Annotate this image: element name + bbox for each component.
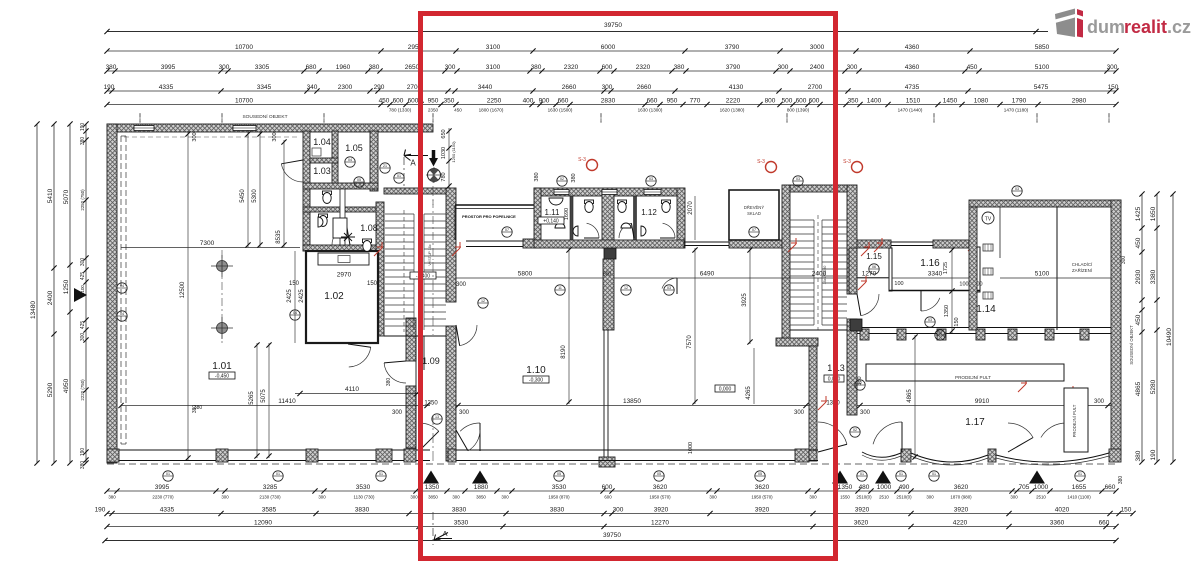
svg-text:0,000: 0,000 [719,387,732,393]
svg-text:3850: 3850 [476,495,486,500]
left black triangle marker [74,288,87,302]
svg-text:480: 480 [859,484,870,491]
svg-text:3830: 3830 [355,506,370,513]
svg-text:12: 12 [624,286,628,290]
svg-text:2400: 2400 [47,290,54,305]
urinal 1.11 [549,198,563,205]
svg-text:2425: 2425 [287,289,293,303]
right outer wall [1111,200,1121,455]
svg-text:150: 150 [1121,506,1132,513]
svg-text:1350: 1350 [425,484,440,491]
wall jog between stairwell and 1.13 [776,338,818,346]
svg-text:770: 770 [690,97,701,104]
svg-text:190: 190 [104,84,115,91]
svg-text:300: 300 [219,64,230,71]
shelf in 1.04 [312,148,321,156]
top wall left section [107,124,433,132]
bath fixtures left block [323,191,332,195]
svg-text:12090: 12090 [254,519,272,526]
svg-text:1725: 1725 [943,262,949,274]
open edge lines 1.09 [415,336,417,450]
svg-text:03: 03 [649,177,653,181]
svg-text:1030: 1030 [441,147,447,159]
door arc left block 1 [281,164,303,182]
svg-text:1510: 1510 [906,97,921,104]
svg-text:1000: 1000 [877,484,892,491]
svg-text:1.14: 1.14 [976,304,996,315]
svg-text:300: 300 [613,506,624,513]
svg-text:1620 (1380): 1620 (1380) [720,108,745,113]
svg-text:4020: 4020 [1055,506,1070,513]
svg-text:1400: 1400 [867,97,882,104]
right block top wall [969,200,1121,207]
tv circle [982,212,994,224]
svg-text:1350: 1350 [838,484,853,491]
svg-text:6000: 6000 [601,44,616,51]
svg-text:300: 300 [926,495,934,500]
svg-text:03: 03 [796,177,800,181]
wall band x849 between 1.13 and 1.15 [849,248,857,294]
svg-text:3340: 3340 [928,271,943,278]
svg-text:-0,300: -0,300 [529,378,543,384]
window lines corridor band [891,241,933,243]
door entrance 1.13 [818,422,847,444]
svg-text:3995: 3995 [155,484,170,491]
bottom band hatched pillars [107,449,119,462]
svg-text:300: 300 [794,410,805,416]
dimension row 3 top [107,90,1116,92]
svg-text:660: 660 [647,97,658,104]
svg-text:380: 380 [386,378,392,387]
inner face dashed line below top wall [124,136,298,138]
svg-text:.cz: .cz [1167,17,1191,37]
level boxed labels [209,372,235,379]
dimension row 1 top [107,50,1116,52]
svg-text:450: 450 [379,97,390,104]
svg-text:2650: 2650 [405,64,420,71]
svg-text:4110: 4110 [345,386,359,393]
svg-text:300: 300 [452,495,460,500]
popelnice shelf [466,240,524,242]
svg-text:5850: 5850 [1035,44,1050,51]
svg-text:01: 01 [166,472,170,476]
svg-text:1.15: 1.15 [866,252,882,261]
svg-text:1.12: 1.12 [641,208,657,217]
wall x446 lower segment [446,326,456,461]
svg-text:1950 (570): 1950 (570) [649,495,671,500]
washbasin 1.12 [621,223,631,228]
vertical line 1.09 corridor dashdot [432,200,434,260]
svg-text:190: 190 [80,448,86,457]
vertical dim line x449 top [448,128,450,188]
svg-text:04: 04 [348,158,352,162]
svg-text:3830: 3830 [550,506,565,513]
svg-text:1655: 1655 [1072,484,1087,491]
svg-text:660: 660 [1105,484,1116,491]
svg-text:2400: 2400 [810,64,825,71]
svg-text:realit: realit [1124,17,1167,37]
svg-text:3790: 3790 [726,64,741,71]
svg-text:+0,140: +0,140 [543,219,559,225]
svg-text:12270: 12270 [651,519,669,526]
svg-text:300: 300 [809,495,817,500]
svg-text:3620: 3620 [954,484,969,491]
svg-text:5300: 5300 [252,189,258,203]
svg-text:490: 490 [899,484,910,491]
svg-text:2220 (750): 2220 (750) [80,379,85,401]
toilet stall 2 [618,200,627,204]
svg-text:2070: 2070 [688,201,694,215]
svg-text:380: 380 [857,376,863,385]
vertical dim chain 4865 [914,335,916,459]
shed tag circle [749,227,759,237]
svg-text:3850: 3850 [428,495,438,500]
svg-text:1.17: 1.17 [965,417,985,428]
svg-text:1250: 1250 [63,279,70,294]
svg-text:2510: 2510 [879,495,889,500]
window lines corridor band sklad [684,241,729,243]
door arc near 1.12 right [662,278,677,289]
svg-text:600: 600 [796,97,807,104]
svg-text:3285: 3285 [263,484,278,491]
svg-text:300: 300 [1107,64,1118,71]
svg-text:300: 300 [80,333,86,342]
svg-text:2830: 2830 [601,97,616,104]
shopfront curved glazing [862,452,1109,462]
svg-text:3530: 3530 [552,484,567,491]
svg-text:450: 450 [454,108,462,113]
stair1 bottom landing line [384,335,446,337]
svg-text:1350: 1350 [944,305,950,317]
svg-text:380: 380 [80,461,86,470]
interior wall x370 right of 1.05 [370,131,378,191]
svg-text:3790: 3790 [725,44,740,51]
svg-text:05: 05 [758,472,762,476]
svg-text:SKLAD: SKLAD [747,211,761,216]
svg-text:4335: 4335 [160,506,175,513]
left wall inner dashed lines [120,136,122,444]
svg-text:CHLADÍCÍ: CHLADÍCÍ [1072,262,1093,267]
svg-text:DŘEVĚNÝ: DŘEVĚNÝ [744,205,764,210]
svg-text:3100: 3100 [486,64,501,71]
svg-text:A: A [410,159,416,168]
dimension row overall 39750 top [107,31,1048,33]
svg-text:600: 600 [602,484,613,491]
stair2 left wall [782,185,790,346]
svg-text:03: 03 [1015,187,1019,191]
svg-text:1880: 1880 [474,484,489,491]
svg-text:1630 (1500): 1630 (1500) [548,108,573,113]
svg-text:5450: 5450 [240,189,246,203]
svg-text:5100: 5100 [1035,64,1050,71]
svg-text:2510(0): 2510(0) [896,495,912,500]
svg-text:380: 380 [192,405,198,414]
svg-text:S-3: S-3 [843,159,851,165]
dim 5800-series line labels in 1.15 zone [857,277,889,279]
tv room left wall [969,207,977,330]
left vertical dimension lines [36,124,38,463]
svg-text:01: 01 [1078,472,1082,476]
svg-text:5075: 5075 [261,389,267,403]
svg-text:190: 190 [80,123,86,132]
svg-text:PRODEJNÍ PULT: PRODEJNÍ PULT [1072,404,1077,437]
stair flight 1 treads [385,213,414,215]
toilet 1.12 [662,200,671,204]
svg-text:ZAŘÍZENÍ: ZAŘÍZENÍ [1072,268,1093,273]
svg-text:1425: 1425 [1135,206,1142,221]
svg-text:2660: 2660 [562,84,577,91]
svg-text:1470 (1180): 1470 (1180) [1004,108,1029,113]
red slashes at stairs [374,242,383,256]
popelnice enclosure top wall [455,204,535,206]
svg-text:600: 600 [408,97,419,104]
wooden shed room [729,190,779,240]
svg-text:1470 (1440): 1470 (1440) [898,108,923,113]
svg-text:1950 (870): 1950 (870) [548,495,570,500]
svg-text:950: 950 [428,97,439,104]
toilet block outer walls [534,188,684,196]
svg-text:2250 (750): 2250 (750) [80,189,85,211]
interior dim 13850 [456,405,809,407]
svg-text:1.11: 1.11 [545,208,561,217]
svg-text:3585: 3585 [262,506,277,513]
svg-text:2970: 2970 [337,272,352,279]
kitchen counter in 1.02 [318,253,369,265]
svg-text:650: 650 [441,129,447,138]
svg-text:3100: 3100 [486,44,501,51]
vertical dim chain 12500 room 1.01 [187,131,189,460]
svg-text:4950: 4950 [63,378,70,393]
svg-text:4865: 4865 [907,389,913,403]
dimension row 2 top [107,70,1116,72]
top wall window insets left section [134,126,154,131]
interior wall x332 [332,131,338,188]
svg-text:3925: 3925 [742,293,748,307]
dashed line bottom of plan [107,463,1116,465]
door arc 1.16 down [921,298,940,311]
right vertical dimension lines [1141,194,1143,462]
svg-text:1960: 1960 [336,64,351,71]
svg-text:705: 705 [1019,484,1030,491]
svg-text:3920: 3920 [654,506,669,513]
svg-text:300: 300 [272,132,278,141]
svg-text:10700: 10700 [235,97,253,104]
vertical dim chains 5265 5075 lower [256,343,258,458]
svg-text:660: 660 [1099,519,1110,526]
svg-text:900: 900 [539,97,550,104]
svg-text:13850: 13850 [623,398,641,405]
interior dim 7300 [121,247,300,249]
svg-text:5265: 5265 [249,391,255,405]
svg-text:11410: 11410 [278,398,296,405]
red slashes near 1.15 [861,242,870,256]
svg-text:02: 02 [853,428,857,432]
svg-text:300: 300 [501,495,509,500]
svg-text:3920: 3920 [855,506,870,513]
svg-text:3440: 3440 [478,84,493,91]
svg-text:380: 380 [674,64,685,71]
svg-text:8535: 8535 [276,230,282,244]
dimension row 3 bottom [107,526,1116,528]
svg-text:4735: 4735 [905,84,920,91]
red arrows in 1.17 [818,396,827,410]
svg-text:2510: 2510 [1036,495,1046,500]
svg-text:380: 380 [1118,476,1124,485]
svg-text:1130 (730): 1130 (730) [354,495,375,500]
svg-text:1.16: 1.16 [920,258,940,269]
svg-text:425: 425 [80,272,86,281]
door entrance 1.17 west [873,422,902,444]
svg-text:S-3: S-3 [578,157,586,163]
svg-text:1450: 1450 [943,97,958,104]
svg-text:10490: 10490 [1166,328,1173,346]
svg-text:100: 100 [894,281,903,287]
svg-text:5290: 5290 [47,382,54,397]
grid dashdot through crosses room 1.01 [221,250,223,345]
red section circles S-3 [587,160,598,171]
svg-text:2425: 2425 [299,289,305,303]
svg-text:350: 350 [444,97,455,104]
svg-text:2300: 2300 [338,84,353,91]
interior wall x303 [303,131,310,251]
svg-text:04: 04 [120,284,124,288]
svg-text:300: 300 [80,258,86,267]
svg-text:3530: 3530 [454,519,469,526]
svg-text:3620: 3620 [755,484,770,491]
svg-text:3920: 3920 [954,506,969,513]
svg-text:10700: 10700 [235,44,253,51]
svg-text:800 (1390): 800 (1390) [787,108,810,113]
svg-text:380: 380 [108,495,116,500]
door arc left block 2 [332,227,347,245]
svg-text:1350: 1350 [424,401,438,407]
wall x406 between 1.01 and 1.09 lower [406,386,416,448]
svg-text:SOUSEDNÍ OBJEKT: SOUSEDNÍ OBJEKT [242,113,287,120]
svg-text:1550: 1550 [840,495,850,500]
svg-text:380: 380 [106,64,117,71]
door arc entry 1.10 [468,430,480,451]
svg-text:380: 380 [571,173,577,182]
svg-text:01: 01 [379,472,383,476]
interior dim row y278 [456,277,604,279]
svg-text:1000: 1000 [1034,484,1049,491]
svg-text:150: 150 [954,317,960,326]
dimension row 4 top [107,104,1116,106]
svg-text:12500: 12500 [180,281,186,298]
svg-text:1.04: 1.04 [313,137,331,147]
interior partition walls bath block [303,183,378,189]
svg-text:400: 400 [523,97,534,104]
section line A-A vertical [432,168,434,205]
grid axis stubs top [139,113,141,122]
svg-text:4360: 4360 [905,64,920,71]
red highlight rectangle [421,14,836,559]
svg-text:5070: 5070 [63,189,70,204]
section marker A bottom [434,533,448,541]
svg-text:425: 425 [80,321,86,330]
svg-text:450: 450 [1135,314,1142,325]
svg-text:2400: 2400 [812,271,827,278]
svg-text:300: 300 [410,495,418,500]
svg-text:1.10: 1.10 [526,365,546,376]
svg-text:300: 300 [602,84,613,91]
svg-text:300: 300 [392,410,403,416]
svg-text:1630 (1300): 1630 (1300) [638,108,663,113]
svg-text:2350: 2350 [428,108,439,113]
svg-text:1.02: 1.02 [324,291,344,302]
svg-text:4265: 4265 [746,386,752,400]
bottom window band lines left [117,449,430,451]
stair flight 2 treads [790,219,814,221]
svg-text:9910: 9910 [975,398,990,405]
vertical dim chain 2070 7570 [694,196,696,240]
double door main entrance left [419,423,439,431]
svg-text:1.09: 1.09 [422,356,440,366]
svg-text:5280: 5280 [1150,379,1157,394]
svg-text:680: 680 [306,64,317,71]
washbasin stall 1 [573,226,578,236]
svg-text:1800 (1670): 1800 (1670) [479,108,504,113]
wall between stair1 and 1.09 corridor [446,188,456,302]
svg-text:3345: 3345 [257,84,272,91]
svg-text:13480: 13480 [30,301,37,319]
svg-text:TV: TV [985,217,992,223]
svg-text:05: 05 [357,178,361,182]
svg-text:2220: 2220 [726,97,741,104]
toilet stall 1 [585,200,594,204]
svg-text:600: 600 [809,97,820,104]
vertical dim chain 1725 1350 [951,248,953,333]
svg-text:3995: 3995 [161,64,176,71]
svg-text:39750: 39750 [603,532,621,539]
svg-text:780 (1330): 780 (1330) [389,108,412,113]
door arc 1.15 [861,294,879,316]
svg-text:1.03: 1.03 [313,166,331,176]
svg-text:300: 300 [192,132,198,141]
svg-text:450: 450 [967,64,978,71]
svg-text:380: 380 [531,64,542,71]
svg-text:2320: 2320 [636,64,651,71]
svg-text:04: 04 [120,312,124,316]
corridor wall band y240 [534,240,684,248]
svg-text:01: 01 [860,472,864,476]
stair2 right wall upper [847,185,857,294]
svg-text:2700: 2700 [808,84,823,91]
svg-text:7570: 7570 [687,335,693,349]
svg-text:1690: 1690 [564,208,570,220]
svg-text:3620: 3620 [653,484,668,491]
dark column left of 1.17 [850,319,862,331]
svg-text:01: 01 [397,174,401,178]
dark column below toilet block [604,248,616,259]
svg-text:06: 06 [872,265,876,269]
middle partition wall upper [603,259,614,330]
svg-text:02: 02 [560,177,564,181]
wall x406 between 1.01 and 1.09 upper [406,318,416,361]
svg-text:07: 07 [752,228,756,232]
svg-text:300: 300 [778,64,789,71]
svg-text:1.01: 1.01 [212,361,232,372]
svg-text:300: 300 [1094,399,1105,405]
bottom marker circles [163,471,173,481]
svg-text:300: 300 [445,64,456,71]
svg-text:290: 290 [374,84,385,91]
svg-text:1080: 1080 [974,97,989,104]
svg-text:190: 190 [1150,449,1157,460]
washbasin 1.11 [555,223,565,228]
vertical dim chain 3925 4265 [749,248,751,344]
svg-text:500: 500 [782,97,793,104]
